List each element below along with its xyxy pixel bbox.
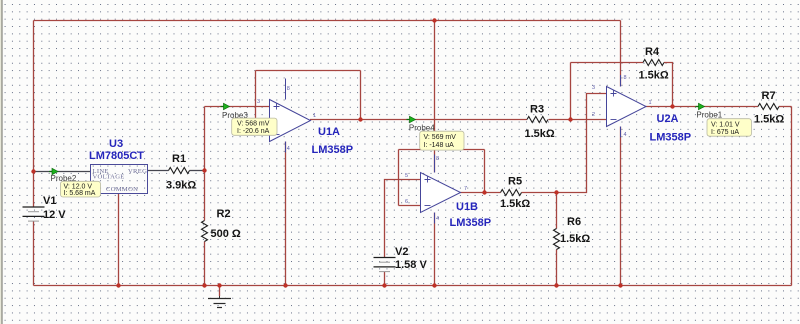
svg-text:1.5kΩ: 1.5kΩ [500,198,530,210]
wire R5 to junction R6 [522,192,557,194]
wire R6 bottom to bus [556,250,558,286]
node junction bus U2A pin4 [618,283,622,287]
svg-text:3: 3 [257,99,260,105]
svg-text:V: 1.01 V: V: 1.01 V [711,122,740,129]
resistor R1 3.9k [166,153,196,192]
node junction R1-R2 divider [202,168,206,172]
battery V2 [374,246,428,272]
svg-text:U1A: U1A [318,126,340,138]
wire R3 to U2A minus node [549,119,571,121]
wire left vertical V1 rail [33,21,35,208]
wire U2A output to R7 [645,106,758,108]
svg-text:V: 569 mV: V: 569 mV [424,134,457,141]
svg-text:LM7805CT: LM7805CT [89,150,144,162]
resistor R3 1.5k [525,104,555,141]
resistor R2 500 [202,208,241,242]
node junction bus U3 COMMON [116,283,120,287]
svg-text:4: 4 [624,132,627,138]
svg-text:7: 7 [464,186,467,192]
wire R4 feedback top to R4 [571,62,644,64]
svg-text:4: 4 [436,216,439,222]
wire U1A feedback top [256,70,361,72]
wire divider node vertical to U1A plus [204,107,206,171]
battery V1 [23,195,67,221]
wire U3 COMMON to bottom bus [118,194,120,286]
svg-text:1: 1 [649,100,652,106]
svg-text:I: 5.68 mA: I: 5.68 mA [64,190,96,197]
resistor R6 1.5k [554,216,591,250]
node junction bus ground [217,283,221,287]
svg-text:1.58 V: 1.58 V [395,259,427,271]
resistor R7 1.5k [754,90,784,126]
node junction U1B output feedback [482,190,486,194]
svg-text:8: 8 [624,75,627,81]
svg-text:1.5kΩ: 1.5kΩ [560,233,590,245]
regulator U3 LM7805CT [89,138,148,194]
wire U1B feedback left vertical [398,150,400,206]
node junction bus R2 [202,283,206,287]
probe Probe3 arrow [221,103,249,120]
svg-text:R2: R2 [217,208,231,220]
svg-text:R4: R4 [645,46,660,58]
svg-text:3.9kΩ: 3.9kΩ [166,180,196,192]
wire R4 feedback vertical [570,63,572,120]
node junction bus R6 [554,283,558,287]
wire U1A pin4 to bottom bus [285,142,287,286]
svg-text:6: 6 [405,199,408,205]
wire U1B pin4 to bottom bus [434,213,436,286]
svg-text:R7: R7 [762,90,776,102]
wire U1A minus input stub [256,134,270,136]
svg-text:VREG: VREG [128,168,147,175]
wire U1B pin8 from top bus [434,21,436,173]
op-amp U1A [257,79,353,157]
svg-text:I: 675 uA: I: 675 uA [711,129,739,136]
probe Probe4 arrow [407,116,436,132]
wire U2A minus input [571,119,607,121]
svg-text:500 Ω: 500 Ω [211,228,241,240]
wire U3 VREG to R1 (dark net) [148,170,169,172]
svg-text:8: 8 [436,156,439,162]
probe Probe1 arrow [696,103,723,119]
svg-text:V1: V1 [43,195,56,207]
wire U2A pin8 from top bus [620,21,622,87]
probe Probe4 tooltip [420,131,464,150]
wire U1B feedback right vertical [484,150,486,193]
node junction bus U1B pin4 [432,283,436,287]
node junction U1A output feedback [358,117,362,121]
svg-text:2: 2 [592,112,595,118]
node junction R3-R4-U2A minus [568,117,572,121]
svg-text:8: 8 [287,86,290,92]
op-amp U1B [405,155,491,230]
probe Probe1 tooltip [707,119,751,137]
svg-text:I: -148 uA: I: -148 uA [424,142,455,149]
op-amp U2A [592,75,691,144]
svg-text:U3: U3 [109,138,123,150]
svg-text:COMMON: COMMON [106,186,138,193]
resistor R5 1.5k [500,176,530,211]
wire V2 plus to U1B plus input [385,180,421,258]
wire right vertical from R7 to bottom bus [791,107,793,286]
node junction V1-U3 [31,169,35,173]
svg-text:LM358P: LM358P [650,132,692,144]
svg-text:I: -20.6 nA: I: -20.6 nA [237,128,270,135]
wire R4 right lead down to output [664,63,673,107]
wire U1A plus input [205,106,270,108]
svg-text:3: 3 [592,85,595,91]
probe Probe2 tooltip [61,181,101,197]
svg-text:R1: R1 [172,153,186,165]
wire R1 to node (dark net) [190,170,205,172]
wire R2 bottom to bus [204,242,206,286]
wire U1B minus input stub [399,205,421,207]
wire ground stub [219,286,221,297]
wire U1A feedback right vertical [360,71,362,120]
svg-text:LM358P: LM358P [312,144,354,156]
svg-text:1.5kΩ: 1.5kΩ [525,128,555,140]
svg-text:R5: R5 [508,176,522,188]
wire U1A output to R3 [310,119,527,121]
svg-text:V: 568 mV: V: 568 mV [237,121,270,128]
svg-text:5: 5 [405,173,408,179]
wire top +12V bus [34,20,621,22]
node junction bus U1A pin4 [283,283,287,287]
svg-text:U2A: U2A [657,113,679,125]
wire U1B output to R5 [460,192,501,194]
probe Probe2 arrow [49,168,77,183]
svg-text:4: 4 [287,146,290,152]
wire U1A feedback left vertical [255,71,257,135]
svg-text:R6: R6 [567,216,581,228]
wire U2A pin4 to bottom bus [620,127,622,286]
wire V1 to U3 LINE input (dark net) [34,171,91,173]
probe Probe3 tooltip [232,118,277,135]
node junction R5-R6 [554,190,558,194]
wire U1B feedback top [399,149,485,151]
wire R7 to right vertical [779,106,792,108]
svg-text:R3: R3 [530,104,544,116]
node junction U2A output R4 [670,104,674,108]
resistor R4 1.5k [639,46,669,82]
ground [208,296,231,308]
wire R6 top lead [556,193,558,229]
wire V2 minus to bottom bus [384,272,386,286]
svg-text:1.5kΩ: 1.5kΩ [639,70,669,82]
svg-text:LM358P: LM358P [450,217,492,229]
wire node to R2 top [204,171,206,221]
wire bottom ground bus [34,285,792,287]
svg-text:12 V: 12 V [43,209,66,221]
svg-text:U1B: U1B [456,201,478,213]
node junction top bus U1B pin8 [432,18,436,22]
svg-text:1.5kΩ: 1.5kΩ [754,114,784,126]
node junction bus V2 [382,283,386,287]
wire V1 minus to bottom bus [33,221,35,285]
svg-text:1: 1 [313,113,316,119]
svg-text:V2: V2 [395,246,408,258]
wire R5R6 node to U2A plus input [557,94,607,193]
svg-text:VOLTAGE: VOLTAGE [93,174,125,181]
